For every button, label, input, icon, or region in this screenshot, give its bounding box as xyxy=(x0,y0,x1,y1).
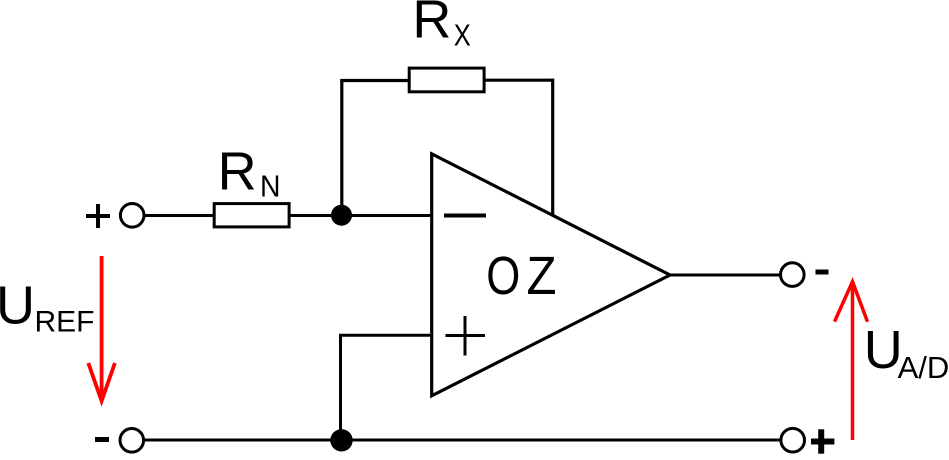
terminal symbol + (output plus) xyxy=(811,429,834,453)
svg-text:Z: Z xyxy=(527,246,557,306)
svg-text:R: R xyxy=(412,0,451,50)
wire input to RN xyxy=(144,214,216,217)
wire feedback top right horizontal xyxy=(484,79,554,82)
op-amp inverting input minus bar xyxy=(444,214,486,218)
terminal circle (left input minus) xyxy=(120,429,144,453)
terminal circle (left input plus) xyxy=(120,204,144,228)
svg-text:U: U xyxy=(0,276,35,336)
terminal symbol - (left input minus) xyxy=(95,437,109,442)
wire non-inverting input vertical xyxy=(339,335,342,440)
svg-text:X: X xyxy=(454,18,471,53)
svg-text:N: N xyxy=(260,168,281,203)
wire non-inverting input horizontal xyxy=(339,334,431,337)
terminal circle (output plus) xyxy=(781,428,805,452)
resistor RX xyxy=(409,68,484,92)
arrow UREF (red, pointing down) xyxy=(88,256,115,401)
wire feedback top left horizontal xyxy=(340,79,410,82)
arrow UA/D (red, pointing up) xyxy=(835,282,868,440)
wire op-amp output xyxy=(670,274,781,277)
terminal symbol - (output minus) xyxy=(816,270,829,275)
node junction dot (inverting input) xyxy=(331,205,352,226)
svg-text:O: O xyxy=(486,246,520,306)
wire feedback left vertical xyxy=(340,81,343,216)
svg-text:A/D: A/D xyxy=(898,350,949,385)
node junction dot (bottom rail) xyxy=(330,429,352,451)
wire feedback right vertical xyxy=(551,79,554,215)
wire RN to op-amp inverting input xyxy=(289,214,431,217)
svg-text:R: R xyxy=(218,141,257,201)
resistor RN xyxy=(214,204,289,227)
terminal symbol + (left input plus) xyxy=(86,204,110,228)
terminal circle (output minus) xyxy=(781,263,805,287)
svg-text:REF: REF xyxy=(35,305,95,338)
wire bottom rail xyxy=(144,439,782,442)
op-amp non-inverting input plus sign xyxy=(446,316,486,356)
op-amp OZ triangle xyxy=(432,154,670,396)
